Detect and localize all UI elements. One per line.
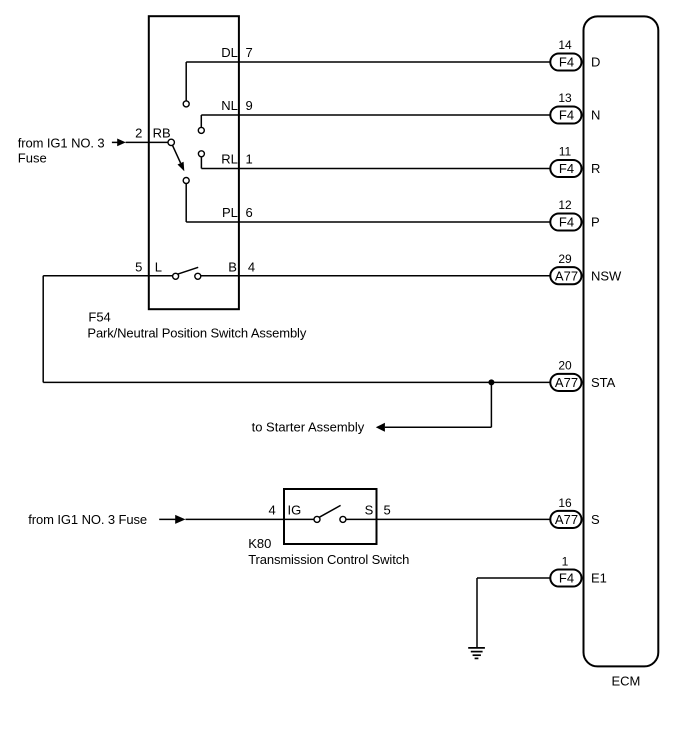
svg-text:B: B [228, 260, 237, 275]
svg-text:P: P [591, 215, 600, 230]
svg-text:11: 11 [559, 145, 572, 159]
svg-text:F4: F4 [559, 215, 574, 230]
svg-text:S: S [365, 502, 374, 517]
svg-text:F54: F54 [88, 309, 110, 324]
svg-text:N: N [591, 108, 600, 123]
svg-text:K80: K80 [248, 536, 271, 551]
svg-text:6: 6 [246, 205, 253, 220]
svg-text:16: 16 [558, 496, 572, 510]
svg-text:F4: F4 [559, 161, 574, 176]
svg-text:RB: RB [153, 125, 171, 140]
svg-text:from IG1 NO. 3: from IG1 NO. 3 [18, 136, 105, 151]
svg-text:5: 5 [384, 502, 391, 517]
svg-text:1: 1 [246, 152, 253, 167]
svg-text:F4: F4 [559, 108, 574, 123]
svg-text:2: 2 [135, 125, 142, 140]
svg-text:F4: F4 [559, 55, 574, 70]
svg-text:R: R [591, 161, 600, 176]
svg-text:A77: A77 [555, 512, 578, 527]
svg-text:20: 20 [558, 359, 572, 373]
svg-text:RL: RL [221, 152, 238, 167]
svg-text:7: 7 [246, 45, 253, 60]
svg-text:F4: F4 [559, 571, 574, 586]
svg-text:L: L [155, 260, 162, 275]
svg-text:STA: STA [591, 375, 616, 390]
svg-text:12: 12 [558, 198, 572, 212]
svg-text:S: S [591, 512, 600, 527]
svg-text:4: 4 [248, 260, 255, 275]
svg-text:4: 4 [268, 502, 275, 517]
svg-text:Transmission Control Switch: Transmission Control Switch [248, 552, 409, 567]
svg-text:PL: PL [222, 205, 238, 220]
svg-text:29: 29 [558, 252, 572, 266]
svg-text:to Starter Assembly: to Starter Assembly [252, 420, 365, 435]
svg-text:14: 14 [558, 38, 572, 52]
svg-text:IG: IG [288, 502, 302, 517]
svg-text:A77: A77 [555, 375, 578, 390]
svg-text:E1: E1 [591, 571, 607, 586]
svg-text:DL: DL [221, 45, 238, 60]
svg-text:9: 9 [246, 98, 253, 113]
svg-text:ECM: ECM [612, 674, 641, 689]
svg-text:1: 1 [562, 554, 569, 568]
svg-text:from IG1 NO. 3 Fuse: from IG1 NO. 3 Fuse [28, 512, 147, 527]
svg-text:Fuse: Fuse [18, 151, 47, 166]
svg-text:5: 5 [135, 260, 142, 275]
svg-text:A77: A77 [555, 268, 578, 283]
svg-text:D: D [591, 55, 600, 70]
svg-text:Park/Neutral Position Switch A: Park/Neutral Position Switch Assembly [87, 325, 306, 340]
svg-text:NSW: NSW [591, 268, 622, 283]
svg-text:NL: NL [221, 98, 238, 113]
svg-text:13: 13 [558, 91, 572, 105]
